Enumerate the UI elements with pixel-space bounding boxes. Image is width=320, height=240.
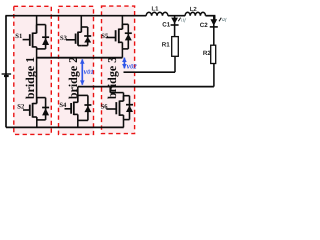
capacitor C2 (polarized symbol) (210, 16, 218, 46)
inductor L1 (146, 12, 168, 15)
transistor S3 with body diode (60, 16, 91, 46)
svg-text:bridge 2: bridge 2 (66, 57, 80, 99)
wire S6 jog horizontal (110, 92, 123, 94)
svg-text:i1f: i1f (181, 17, 186, 22)
wire left DC rail vertical (5, 16, 7, 128)
label bridge 1 (23, 57, 37, 99)
wire bottom DC rail (6, 126, 124, 128)
wire S6 jog vertical (109, 87, 111, 93)
transistor S2 with body diode (17, 98, 49, 120)
svg-text:L2: L2 (190, 6, 198, 13)
current arrow i2f (219, 17, 227, 22)
label R2 (203, 50, 211, 57)
svg-text:v02: v02 (127, 61, 138, 70)
voltage arrow v02 (122, 57, 127, 69)
label L2 (190, 6, 198, 13)
svg-text:S5: S5 (101, 33, 109, 40)
transistor S5 with body diode (101, 16, 132, 49)
label v02 (127, 61, 138, 70)
wire R1 return vertical (174, 56, 176, 72)
svg-text:R1: R1 (162, 41, 170, 48)
svg-text:R2: R2 (203, 50, 211, 57)
label C1 (162, 21, 170, 28)
label C2 (200, 22, 208, 29)
inductor L2 (185, 12, 205, 15)
label L1 (151, 5, 159, 12)
svg-text:v01: v01 (84, 67, 94, 76)
wire R2 return vertical (213, 64, 215, 87)
wire R1 return horizontal (124, 71, 176, 73)
transistor S1 with body diode (15, 16, 49, 49)
svg-text:S3: S3 (60, 35, 68, 42)
voltage arrow v01 (80, 59, 85, 85)
wire S4 source to rail (77, 120, 79, 127)
svg-text:S1: S1 (15, 33, 22, 40)
bridge 3 dashed cell box (102, 6, 135, 134)
label bridge 2 (66, 57, 80, 99)
capacitor C1 (polarized symbol) (171, 16, 179, 37)
svg-text:bridge 1: bridge 1 (23, 57, 37, 99)
svg-text:bridge 3: bridge 3 (105, 57, 119, 99)
svg-text:i2f: i2f (222, 17, 227, 22)
resistor R1 (172, 37, 179, 57)
label v01 (84, 67, 94, 76)
label bridge 3 (105, 57, 119, 99)
resistor R2 (211, 45, 216, 63)
bridge 2 dashed cell box (59, 6, 94, 134)
transistor S6 with body diode (101, 96, 133, 120)
wire top DC rail (5, 16, 215, 20)
svg-text:C2: C2 (200, 22, 208, 29)
bridge 1 dashed cell box (14, 6, 52, 134)
wire bridge1 midpoint to S2 (36, 49, 38, 104)
svg-text:C1: C1 (162, 21, 170, 28)
wire S6 drain drop (123, 93, 125, 102)
wire S4 drain drop (77, 87, 79, 103)
label R1 (162, 41, 170, 48)
wire S2 source to rail (36, 120, 38, 128)
wire S6 source to rail (123, 120, 125, 128)
wire midpoint bus node A (37, 57, 123, 59)
current arrow i1f (178, 17, 186, 22)
svg-text:L1: L1 (151, 5, 159, 12)
wire output net horizontal (78, 86, 214, 88)
wire bridge3 midpoint stub (121, 49, 123, 58)
transistor S4 with body diode (59, 95, 91, 120)
DC source V1 battery (2, 74, 12, 76)
